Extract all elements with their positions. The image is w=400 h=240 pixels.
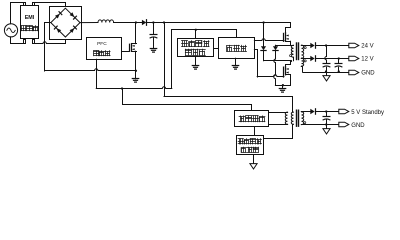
riser to converter feed xyxy=(172,30,237,89)
junction vertical A xyxy=(163,21,165,23)
junction standby GND xyxy=(325,123,327,125)
bridge diode D2 (top-right) xyxy=(70,12,77,19)
earth ground controller xyxy=(192,66,198,70)
svg-text:GND: GND xyxy=(361,70,375,76)
T1 core xyxy=(297,43,299,60)
junction MOSFET drain xyxy=(135,21,137,23)
PFC MOSFET Q1 xyxy=(130,44,137,52)
T2 secondary phase dot xyxy=(304,122,306,124)
connector 24V xyxy=(349,43,359,48)
switching PSU controller box xyxy=(178,39,214,57)
bridge diode D4 (bottom-right) xyxy=(70,26,77,33)
earth ground half-bridge xyxy=(279,85,285,92)
AC source V1 xyxy=(4,24,17,37)
wire controller to driver xyxy=(214,48,219,50)
svg-text:PFC: PFC xyxy=(97,41,107,47)
controller label line1 (Chinese) xyxy=(182,41,210,47)
T1 secondary phase dot 2 xyxy=(304,60,306,62)
standby cap C4 xyxy=(323,112,330,125)
junction 12V cap xyxy=(338,57,340,59)
boost diode D5 xyxy=(142,20,147,26)
T2 secondary xyxy=(302,112,304,125)
signal ground output xyxy=(323,72,330,81)
GND row wire xyxy=(303,72,349,74)
svg-text:5 V Standby: 5 V Standby xyxy=(351,110,384,116)
junction controller feed xyxy=(195,29,197,31)
earth ground bulk cap xyxy=(150,49,156,53)
T1 secondary upper xyxy=(302,45,304,58)
wire Q3 source to ground xyxy=(275,75,290,86)
MOSFET Q3 lower xyxy=(284,67,291,78)
signal ground rectifier xyxy=(250,155,257,169)
standby feed rail xyxy=(164,97,293,112)
junction GND row cap2 xyxy=(338,70,340,72)
bridge rectifier box xyxy=(50,7,82,40)
PFC label line2 (Chinese) xyxy=(94,51,111,56)
wire Q2 source xyxy=(290,41,292,45)
junction 5V cap xyxy=(325,110,327,112)
wire B+ hook to Q2 drain xyxy=(286,23,291,33)
wire EMI bottom out to bridge bottom with hop xyxy=(34,39,66,43)
standby transformer T2 bias winding xyxy=(285,112,287,124)
junction rail2 branch xyxy=(121,87,123,89)
filter cap C3 xyxy=(335,58,342,72)
boost inductor L1 xyxy=(98,20,114,23)
wire controller feed xyxy=(195,30,197,38)
PFC controller box xyxy=(87,38,122,60)
connector 12V xyxy=(349,56,359,61)
main transformer T1 primary xyxy=(291,45,293,57)
wire bridge left vertex to return rail xyxy=(45,23,51,72)
junction bulk cap xyxy=(152,21,154,23)
bridge diode D3 (bottom-left) xyxy=(54,26,61,33)
wire AC top to EMI input xyxy=(11,3,25,24)
output diode D7 xyxy=(310,56,315,61)
EMI label line2 (Chinese) xyxy=(21,26,38,31)
label 5V standby xyxy=(351,110,384,116)
24V row wire xyxy=(301,45,349,47)
driver ground stem xyxy=(235,58,237,65)
wire Q1 source xyxy=(135,51,137,71)
rectifier label line1 (Chinese) xyxy=(238,139,261,144)
wire bridge output xyxy=(80,22,98,24)
bridge diamond xyxy=(51,8,80,37)
label standby GND xyxy=(351,123,365,129)
standby diode D8 xyxy=(310,109,315,114)
wire PFC gate xyxy=(122,51,129,53)
EMI terminal bottom-right xyxy=(33,40,35,44)
wire primary bottom to node xyxy=(293,57,295,61)
rectifier label line2 (Chinese) xyxy=(241,147,258,152)
rail2 with hop over vertical A xyxy=(96,87,172,89)
wire boost node xyxy=(114,22,142,24)
bias winding wire top xyxy=(269,112,288,114)
driver box xyxy=(219,38,255,59)
primary bottom wire xyxy=(264,60,291,62)
junction GND row cap1 xyxy=(325,70,327,72)
wire PFC bottom to rail2 xyxy=(96,59,98,88)
T2 primary xyxy=(291,112,293,124)
controller ground stem xyxy=(195,57,197,66)
junction primary bottom xyxy=(290,60,292,62)
clamp diode A branch xyxy=(261,23,266,61)
upper gate wire with hop xyxy=(254,39,284,41)
bias output box xyxy=(235,111,269,127)
5V row wire xyxy=(301,111,339,113)
connector 5V standby xyxy=(339,109,349,114)
PFC label xyxy=(97,41,107,47)
T2 core xyxy=(297,110,299,126)
wire EMI top out to bridge xyxy=(35,3,66,9)
EMI label xyxy=(25,15,35,21)
T1 secondary bottom to GND row xyxy=(301,67,302,73)
bias output label (Chinese) xyxy=(239,116,265,122)
bias rail xyxy=(123,89,252,111)
EMI terminal bottom-left xyxy=(24,40,26,44)
label 12V xyxy=(361,57,373,63)
lower gate wire with hop xyxy=(254,50,284,78)
bias winding wire bottom xyxy=(269,124,288,126)
driver label (Chinese) xyxy=(227,45,247,51)
junction clamp diode A xyxy=(262,21,264,23)
controller label line2 (Chinese) xyxy=(185,49,205,55)
MOSFET Q2 upper xyxy=(284,33,291,42)
bridge diode D1 (left-top) xyxy=(55,12,62,19)
bulk capacitor C1 xyxy=(150,23,157,49)
vertical A wire B+ to standby rail xyxy=(164,23,166,97)
svg-text:GND: GND xyxy=(351,123,365,129)
svg-text:24 V: 24 V xyxy=(361,43,373,49)
primary return rail with hop at PFC xyxy=(45,69,136,71)
junction rail-MOSFET source xyxy=(135,70,137,72)
wire rectifier to standby primary xyxy=(264,124,293,138)
wire AC bottom xyxy=(11,37,24,44)
junction Q3 ground xyxy=(282,84,284,86)
filter cap C2 xyxy=(323,45,330,72)
connector standby GND xyxy=(339,122,349,127)
T1 primary phase dot xyxy=(290,55,292,57)
T1 secondary phase dot 1 xyxy=(304,47,306,49)
signal ground standby xyxy=(323,125,330,134)
wire Q3 drain xyxy=(286,61,291,67)
EMI terminal top-left xyxy=(24,3,26,6)
wire bias box to rectifier box xyxy=(254,127,256,136)
standby GND row xyxy=(301,124,339,126)
12V row wire xyxy=(301,58,349,60)
svg-text:12 V: 12 V xyxy=(361,57,373,63)
output diode D6 xyxy=(310,43,315,48)
EMI filter box xyxy=(21,6,39,39)
label 24V xyxy=(361,43,373,49)
wire boost diode to B+ xyxy=(147,22,290,24)
primary top wire xyxy=(275,45,293,47)
EMI terminal top-right xyxy=(33,3,35,6)
earth ground driver xyxy=(232,66,238,70)
junction 24V cap xyxy=(325,44,327,46)
T1 secondary lower xyxy=(302,58,304,66)
earth ground at return rail xyxy=(132,71,138,82)
wire Q1 drain xyxy=(135,23,137,44)
svg-text:EMI: EMI xyxy=(25,15,35,21)
label GND xyxy=(361,70,375,76)
connector GND xyxy=(349,70,359,75)
standby rectifier box xyxy=(237,136,264,155)
clamp diode B branch xyxy=(273,45,278,85)
